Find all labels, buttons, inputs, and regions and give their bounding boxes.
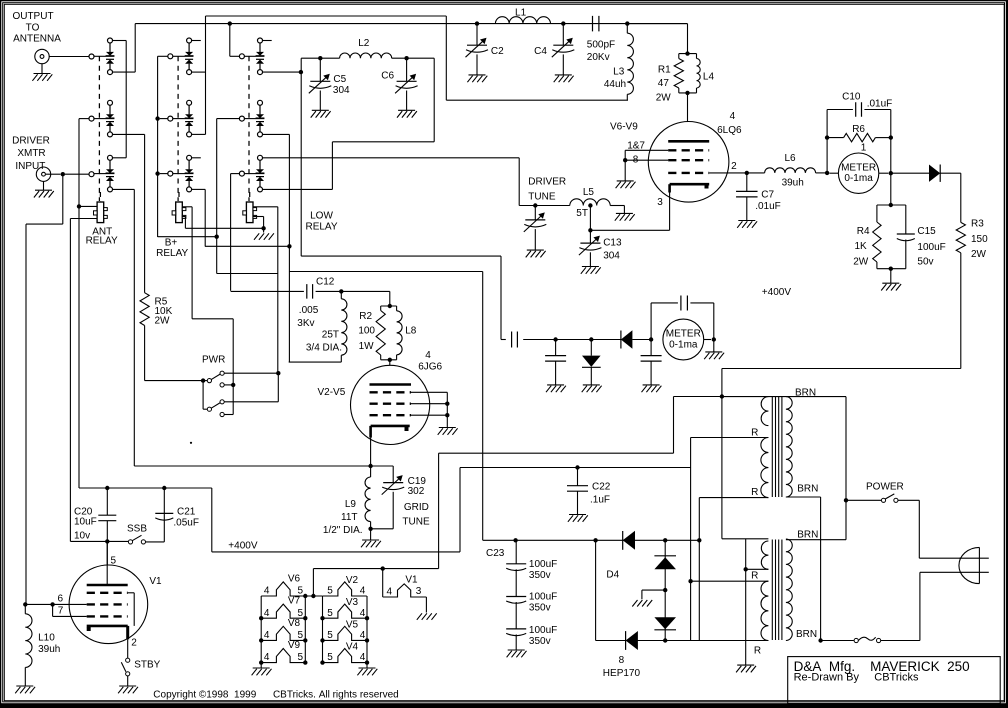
svg-text:TO: TO <box>26 23 40 34</box>
svg-text:2W: 2W <box>155 316 171 327</box>
svg-text:4: 4 <box>264 608 270 619</box>
svg-text:V5: V5 <box>346 619 359 630</box>
svg-text:2: 2 <box>731 161 737 172</box>
svg-text:4: 4 <box>264 652 270 663</box>
svg-text:10v: 10v <box>74 531 90 542</box>
svg-text:4: 4 <box>425 350 431 361</box>
svg-text:4: 4 <box>730 111 736 122</box>
svg-text:5: 5 <box>298 608 304 619</box>
svg-text:HEP170: HEP170 <box>603 668 641 679</box>
svg-text:39uh: 39uh <box>38 644 60 655</box>
svg-text:47: 47 <box>658 78 670 89</box>
svg-text:BRN: BRN <box>797 483 818 494</box>
svg-text:C6: C6 <box>381 70 394 81</box>
svg-text:SSB: SSB <box>127 524 147 535</box>
svg-text:100uF: 100uF <box>917 242 945 253</box>
svg-text:BRN: BRN <box>797 529 818 540</box>
svg-text:4: 4 <box>360 630 366 641</box>
svg-text:3/4 DIA.: 3/4 DIA. <box>306 343 342 354</box>
svg-text:GRID: GRID <box>404 502 429 513</box>
svg-text:C12: C12 <box>316 277 335 288</box>
svg-text:L8: L8 <box>405 325 417 336</box>
svg-text:350v: 350v <box>529 636 551 647</box>
svg-text:L5: L5 <box>583 187 595 198</box>
svg-text:TUNE: TUNE <box>528 191 556 202</box>
svg-text:39uh: 39uh <box>782 178 804 189</box>
svg-text:2W: 2W <box>853 256 869 267</box>
svg-text:5: 5 <box>327 608 333 619</box>
svg-text:DRIVER: DRIVER <box>12 135 50 146</box>
svg-text:44uh: 44uh <box>604 79 626 90</box>
svg-text:5: 5 <box>298 630 304 641</box>
svg-text:V6-V9: V6-V9 <box>610 122 638 133</box>
svg-text:5: 5 <box>298 652 304 663</box>
svg-text:1&7: 1&7 <box>627 140 645 151</box>
svg-text:V4: V4 <box>346 642 359 653</box>
svg-text:V6: V6 <box>288 573 301 584</box>
svg-text:L4: L4 <box>703 72 715 83</box>
svg-text:R3: R3 <box>971 219 984 230</box>
svg-text:4: 4 <box>360 652 366 663</box>
svg-text:C21: C21 <box>177 507 196 518</box>
svg-text:+400V: +400V <box>228 541 258 552</box>
svg-text:L9: L9 <box>345 499 357 510</box>
svg-text:1/2" DIA.: 1/2" DIA. <box>323 525 363 536</box>
svg-text:V2-V5: V2-V5 <box>318 387 346 398</box>
svg-text:RELAY: RELAY <box>156 248 188 259</box>
svg-text:Re-Drawn By CBTricks: Re-Drawn By CBTricks <box>794 672 919 684</box>
svg-text:C22: C22 <box>592 482 611 493</box>
svg-text:RELAY: RELAY <box>305 222 337 233</box>
svg-text:3: 3 <box>416 586 422 597</box>
svg-text:100: 100 <box>358 325 375 336</box>
svg-text:INPUT: INPUT <box>15 161 45 172</box>
svg-text:4: 4 <box>387 587 393 598</box>
svg-text:6LQ6: 6LQ6 <box>717 125 742 136</box>
svg-text:R: R <box>754 645 761 656</box>
svg-text:L6: L6 <box>784 153 796 164</box>
svg-text:V9: V9 <box>288 640 301 651</box>
svg-text:D4: D4 <box>606 570 619 581</box>
svg-text:1W: 1W <box>359 341 375 352</box>
svg-text:7: 7 <box>58 605 64 616</box>
svg-text:4: 4 <box>360 586 366 597</box>
svg-text:R: R <box>751 487 758 498</box>
svg-text:LOW: LOW <box>310 211 333 222</box>
svg-text:350v: 350v <box>529 603 551 614</box>
svg-text:R2: R2 <box>359 311 372 322</box>
svg-text:4: 4 <box>264 630 270 641</box>
svg-text:R: R <box>751 428 758 439</box>
svg-text:6JG6: 6JG6 <box>418 361 442 372</box>
svg-text:ANTENNA: ANTENNA <box>13 34 61 45</box>
svg-text:100uF: 100uF <box>529 625 557 636</box>
svg-text:OUTPUT: OUTPUT <box>12 11 53 22</box>
svg-text:2: 2 <box>131 637 137 648</box>
svg-text:3: 3 <box>657 197 663 208</box>
svg-text:2W: 2W <box>656 93 672 104</box>
svg-text:C4: C4 <box>534 46 547 57</box>
svg-text:.005: .005 <box>299 305 319 316</box>
svg-text:2W: 2W <box>971 249 987 260</box>
svg-text:TUNE: TUNE <box>402 517 430 528</box>
svg-text:.01uF: .01uF <box>755 201 781 212</box>
svg-text:5: 5 <box>327 652 333 663</box>
svg-text:50v: 50v <box>917 256 933 267</box>
svg-text:V2: V2 <box>346 575 359 586</box>
svg-text:V3: V3 <box>346 597 359 608</box>
svg-text:STBY: STBY <box>134 659 160 670</box>
svg-text:100uF: 100uF <box>529 559 557 570</box>
svg-text:.1uF: .1uF <box>590 495 610 506</box>
svg-text:R1: R1 <box>658 65 671 76</box>
svg-text:100uF: 100uF <box>529 592 557 603</box>
svg-text:L10: L10 <box>38 632 55 643</box>
svg-text:METER: METER <box>841 162 876 173</box>
svg-text:V1: V1 <box>405 575 418 586</box>
svg-text:C5: C5 <box>333 74 346 85</box>
svg-text:350v: 350v <box>529 570 551 581</box>
svg-text:5: 5 <box>327 630 333 641</box>
svg-text:304: 304 <box>333 85 350 96</box>
svg-text:500pF: 500pF <box>587 40 615 51</box>
svg-text:+400V: +400V <box>762 287 792 298</box>
svg-text:C7: C7 <box>761 190 774 201</box>
svg-text:1: 1 <box>861 143 867 154</box>
svg-text:C2: C2 <box>491 46 504 57</box>
svg-text:C15: C15 <box>917 226 936 237</box>
svg-text:304: 304 <box>603 251 620 262</box>
svg-text:R: R <box>751 571 758 582</box>
svg-text:Copyright ©1998 1999 CBT: Copyright ©1998 1999 CBTricks. All right… <box>153 690 398 701</box>
svg-text:3Kv: 3Kv <box>297 318 314 329</box>
svg-text:150: 150 <box>971 234 988 245</box>
svg-text:8: 8 <box>619 655 625 666</box>
svg-text:5: 5 <box>298 586 304 597</box>
svg-text:V7: V7 <box>288 596 301 607</box>
svg-text:4: 4 <box>264 586 270 597</box>
svg-text:PWR: PWR <box>202 355 225 366</box>
svg-text:BRN: BRN <box>796 629 817 640</box>
svg-text:B+: B+ <box>165 238 178 249</box>
svg-text:11T: 11T <box>341 512 358 523</box>
svg-text:L1: L1 <box>515 7 527 18</box>
svg-text:302: 302 <box>408 486 425 497</box>
svg-text:1K: 1K <box>854 241 867 252</box>
svg-text:6: 6 <box>58 594 64 605</box>
svg-text:R6: R6 <box>852 124 865 135</box>
svg-text:C13: C13 <box>603 237 622 248</box>
svg-text:XMTR: XMTR <box>17 148 45 159</box>
svg-text:C10: C10 <box>842 91 861 102</box>
svg-text:5: 5 <box>327 586 333 597</box>
svg-text:L3: L3 <box>613 66 625 77</box>
svg-text:0-1ma: 0-1ma <box>844 173 873 184</box>
svg-text:DRIVER: DRIVER <box>528 176 566 187</box>
svg-text:8: 8 <box>633 155 639 166</box>
svg-text:POWER: POWER <box>866 482 904 493</box>
svg-text:BRN: BRN <box>795 387 816 398</box>
svg-text:.05uF: .05uF <box>173 517 199 528</box>
svg-text:METER: METER <box>666 329 701 340</box>
svg-text:20Kv: 20Kv <box>587 52 610 63</box>
svg-text:4: 4 <box>360 608 366 619</box>
svg-text:25T: 25T <box>322 330 339 341</box>
svg-text:V8: V8 <box>288 618 301 629</box>
svg-text:5: 5 <box>111 556 117 567</box>
svg-text:10uF: 10uF <box>74 516 97 527</box>
svg-text:L2: L2 <box>358 38 370 49</box>
svg-text:V1: V1 <box>149 576 162 587</box>
svg-text:0-1ma: 0-1ma <box>669 340 698 351</box>
svg-text:.01uF: .01uF <box>867 98 893 109</box>
svg-text:C23: C23 <box>486 548 505 559</box>
svg-text:RELAY: RELAY <box>86 235 118 246</box>
svg-text:5T: 5T <box>576 208 588 219</box>
svg-text:R4: R4 <box>857 226 870 237</box>
